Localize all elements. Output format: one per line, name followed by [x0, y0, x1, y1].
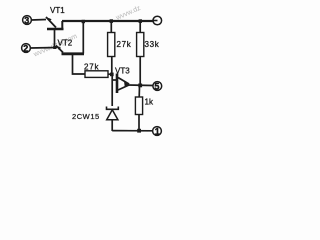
zener diode 2CW15 [72, 107, 118, 132]
terminal 5 [153, 82, 162, 92]
wire VT2 base down and right to R3 [73, 55, 86, 74]
wire VT3 output to terminal 5 [128, 84, 153, 87]
terminal 4 (top right output) [152, 16, 162, 25]
junction top rail / R1 [110, 19, 113, 23]
transistor VT2 [56, 39, 84, 54]
resistor R4 1k (vertical) [135, 86, 154, 131]
svg-text:1: 1 [155, 127, 160, 137]
wire terminal 3 to VT1 emitter [32, 19, 47, 22]
node A junction [53, 46, 56, 49]
svg-text:2CW15: 2CW15 [72, 112, 100, 121]
svg-text:3: 3 [24, 16, 29, 26]
terminal 2 [22, 44, 31, 54]
terminal 1 [153, 127, 162, 137]
junction bottom rail / R4 [137, 129, 141, 133]
wire bottom rail [112, 130, 152, 132]
wire VT1 base down to node A [54, 30, 56, 48]
wire R1 bottom to node B [111, 57, 113, 75]
svg-text:27k: 27k [84, 63, 99, 72]
terminal 3 [23, 16, 32, 26]
wire VT2 collector to top rail [82, 22, 84, 54]
svg-text:VT2: VT2 [58, 39, 73, 48]
wire node B down to zener [111, 75, 113, 107]
watermark [32, 5, 142, 59]
node B junction [110, 73, 114, 77]
junction top rail / VT2 collector [82, 20, 85, 23]
wire top rail [62, 20, 153, 22]
node C junction [138, 84, 142, 88]
junction top rail / R2 [139, 19, 142, 23]
svg-text:33k: 33k [145, 40, 160, 49]
wire terminal 2 to node A [31, 47, 58, 50]
svg-text:1k: 1k [145, 98, 154, 107]
resistor R1 27k (vertical) [108, 22, 132, 57]
resistor R3 27k (horizontal) [84, 63, 108, 78]
svg-text:VT1: VT1 [50, 6, 65, 15]
wire R3 to node B [108, 73, 113, 75]
svg-text:5: 5 [154, 82, 159, 92]
svg-text:2: 2 [23, 44, 28, 54]
transistor VT3 [112, 67, 130, 94]
resistor R2 33k (vertical) [137, 22, 160, 57]
wire R2 bottom to node C [139, 57, 141, 87]
svg-text:27k: 27k [117, 40, 132, 49]
transistor VT1 [46, 6, 65, 30]
